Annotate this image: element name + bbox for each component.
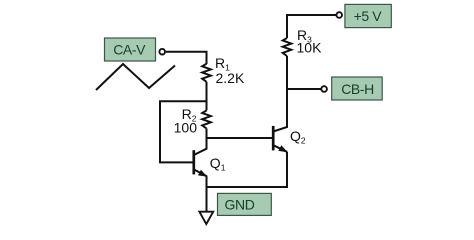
transistor Q1 xyxy=(194,138,226,177)
svg-text:100: 100 xyxy=(174,120,198,136)
triangle waveform symbol xyxy=(96,64,175,90)
terminal circle CB-H xyxy=(321,86,327,92)
ground xyxy=(199,212,213,224)
wire junction to Q2 base xyxy=(207,137,274,139)
svg-text:GND: GND xyxy=(225,196,255,212)
resistor R1 xyxy=(202,55,245,86)
node GND terminal box xyxy=(218,193,272,215)
wire Q1 emitter to ground xyxy=(206,176,208,212)
svg-text:+5 V: +5 V xyxy=(354,8,383,24)
wire R2 bottom to Q1 collector junction xyxy=(206,129,208,143)
wire emitters joining xyxy=(207,152,288,187)
transistor Q2 xyxy=(273,113,306,152)
wire CB-H branch xyxy=(287,88,321,90)
wire Q2 collector up xyxy=(286,56,288,127)
node CB-H terminal box xyxy=(332,77,383,100)
node CA-V terminal box xyxy=(105,38,156,61)
node +5V terminal box xyxy=(345,4,391,27)
wire loop to Q1 base xyxy=(160,101,207,162)
terminal circle CA-V xyxy=(159,49,165,55)
svg-text:2.2K: 2.2K xyxy=(216,70,245,86)
wire R3 top to +5V xyxy=(287,15,337,38)
resistor R2 xyxy=(174,106,211,136)
terminal circle +5V xyxy=(336,12,342,18)
svg-text:10K: 10K xyxy=(297,40,323,56)
resistor R3 xyxy=(283,27,322,56)
svg-text:CA-V: CA-V xyxy=(113,42,146,58)
svg-text:CB-H: CB-H xyxy=(341,81,374,97)
wire CA-V to R1 top xyxy=(166,52,207,64)
wire R1 bottom to junction xyxy=(206,82,208,111)
